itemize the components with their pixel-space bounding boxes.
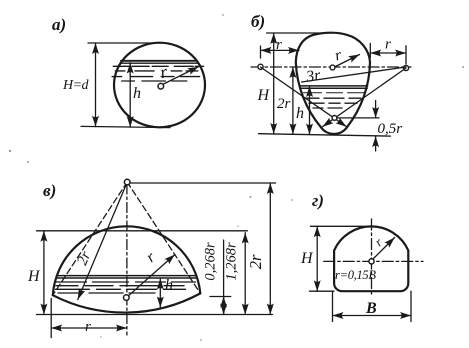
dimension H=d bbox=[95, 43, 97, 127]
water hatching bbox=[304, 92, 365, 94]
svg-text:r: r bbox=[85, 319, 91, 335]
svg-text:а): а) bbox=[52, 15, 66, 34]
dimension r (top left) bbox=[261, 49, 300, 51]
svg-text:h: h bbox=[296, 105, 304, 122]
radius line from left center to bottom tangent point bbox=[261, 67, 347, 127]
svg-text:г): г) bbox=[312, 191, 324, 210]
dimension h (egg) bbox=[309, 86, 311, 135]
dimension r (bottom) bbox=[51, 327, 127, 329]
right extension tick (egg edge) bbox=[369, 43, 371, 58]
dashed line apex to right springing bbox=[127, 182, 200, 293]
left arc center point bbox=[258, 64, 263, 69]
apex point bbox=[124, 179, 130, 185]
svg-text:r=0,15B: r=0,15B bbox=[335, 268, 376, 282]
svg-text:2r: 2r bbox=[246, 254, 265, 269]
svg-text:0,268r: 0,268r bbox=[203, 242, 219, 281]
vertical centerline (dash-dot) bbox=[126, 184, 128, 335]
bottom tangent line bbox=[259, 134, 391, 136]
svg-text:r: r bbox=[276, 37, 282, 53]
dimension r (top right) bbox=[370, 52, 406, 54]
top tangent line bbox=[311, 225, 365, 227]
dimension 0,5r upper arrow bbox=[375, 101, 377, 118]
dimension 0,5r lower arrow bbox=[375, 136, 377, 151]
left arc center tick bbox=[260, 46, 262, 58]
radius line from right center to bottom tangent point bbox=[323, 68, 407, 127]
bottom center level line bbox=[337, 117, 379, 119]
svg-text:0,5r: 0,5r bbox=[378, 121, 403, 137]
svg-text:h: h bbox=[133, 85, 141, 102]
dimension 0,268r bbox=[223, 240, 225, 315]
top tangent extension line bbox=[267, 32, 331, 34]
top tangent line bbox=[37, 230, 248, 232]
water surface double line bbox=[121, 60, 197, 62]
horizontal centerline (dash-dot) bbox=[324, 260, 423, 262]
bottom extension line bbox=[310, 290, 335, 292]
horizontal centerline (dash-dot) bbox=[251, 66, 411, 68]
dimension 2r (egg) bbox=[292, 67, 294, 134]
vertical centerline (dash-dot) bbox=[371, 219, 373, 297]
dashed line apex to left springing bbox=[53, 182, 127, 295]
svg-text:2r: 2r bbox=[277, 96, 291, 112]
radius r arrow (dome) bbox=[126, 255, 175, 298]
dome arc bbox=[53, 226, 201, 295]
bottom tangent line bbox=[37, 314, 273, 316]
dimension h bbox=[129, 63, 131, 128]
chord level line bbox=[210, 296, 231, 298]
dimension H (horseshoe) bbox=[316, 226, 318, 291]
dimension h (dome) bbox=[159, 279, 161, 308]
svg-text:H: H bbox=[257, 87, 271, 104]
svg-text:r: r bbox=[372, 234, 386, 249]
svg-text:r: r bbox=[158, 61, 170, 82]
bottom center point bbox=[124, 295, 130, 301]
right arc center tick bbox=[405, 46, 407, 64]
egg outline bbox=[296, 33, 370, 134]
bottom circle center bbox=[332, 116, 337, 121]
2r radius line from apex bbox=[78, 182, 127, 299]
radius r arrow of crown bbox=[335, 55, 360, 68]
water surface double line bbox=[301, 86, 368, 88]
svg-text:B: B bbox=[365, 300, 377, 317]
center point bbox=[369, 259, 374, 264]
right extension line for B bbox=[410, 291, 412, 321]
dimension H (egg) bbox=[273, 33, 275, 134]
apex level line bbox=[131, 182, 276, 184]
bottom tangent extension line bbox=[81, 126, 170, 127]
3r radius line bbox=[302, 67, 406, 82]
svg-text:h: h bbox=[165, 277, 173, 294]
radius r arrow (horseshoe) bbox=[373, 238, 395, 260]
svg-text:в): в) bbox=[43, 181, 56, 200]
left extension line for B bbox=[332, 291, 334, 321]
water hatching bbox=[113, 65, 204, 67]
svg-text:H: H bbox=[300, 250, 314, 267]
svg-text:б): б) bbox=[251, 12, 265, 31]
dimension B bbox=[333, 315, 412, 317]
right arc center point bbox=[403, 65, 408, 70]
water surface double line bbox=[58, 276, 197, 278]
svg-text:r: r bbox=[333, 46, 344, 64]
horseshoe outline bbox=[334, 226, 408, 291]
circle outline bbox=[114, 43, 205, 128]
left extension line for r bbox=[50, 298, 52, 337]
svg-text:r: r bbox=[385, 37, 391, 53]
radius r arrow bbox=[164, 67, 199, 84]
svg-text:2r: 2r bbox=[74, 249, 94, 268]
top tangent extension line bbox=[88, 42, 163, 44]
dimension H (dome) bbox=[43, 231, 45, 315]
water hatching bbox=[57, 281, 196, 283]
center point bbox=[158, 83, 164, 89]
svg-text:1,268r: 1,268r bbox=[224, 242, 240, 281]
svg-text:H=d: H=d bbox=[62, 78, 90, 93]
dimension 1,268r bbox=[244, 233, 246, 315]
svg-text:H: H bbox=[27, 268, 41, 285]
dimension 2r (dome) bbox=[269, 183, 271, 315]
top circle center bbox=[330, 65, 335, 70]
bottom sag arc bbox=[53, 293, 201, 312]
svg-text:3r: 3r bbox=[304, 67, 322, 86]
svg-text:r: r bbox=[143, 248, 159, 266]
